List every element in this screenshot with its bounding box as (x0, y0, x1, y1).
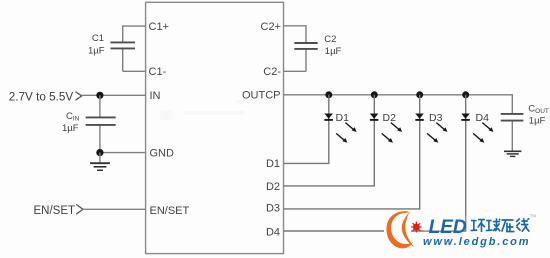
svg-text:1µF: 1µF (62, 123, 79, 134)
wire IN (82, 94, 146, 96)
svg-text:C1+: C1+ (149, 21, 170, 33)
svg-text:TM: TM (530, 214, 537, 219)
node OUTCP junction 3 (416, 91, 423, 98)
wire LED D1 branch (284, 95, 329, 164)
value label COUT (528, 104, 549, 116)
svg-text:1µF: 1µF (529, 116, 546, 127)
node OUTCP junction 2 (371, 91, 378, 98)
wire COUT to ground (511, 122, 513, 152)
pin label IN (150, 90, 161, 102)
svg-text:D2: D2 (383, 112, 397, 124)
LED D3 (415, 114, 447, 143)
value label D1 (336, 112, 350, 124)
node OUTCP junction 1 (325, 91, 332, 98)
value label CIN (66, 111, 80, 123)
pin label C1- (149, 66, 167, 78)
svg-text:D3: D3 (266, 203, 280, 215)
value label CIN 1uF (62, 123, 79, 134)
value label COUT 1uF (529, 116, 546, 127)
value label C2 (324, 34, 336, 45)
logo background (384, 211, 550, 256)
logo text LED (429, 217, 467, 238)
watermark (160, 100, 272, 120)
value label D2 (383, 112, 397, 124)
svg-text:D4: D4 (476, 112, 490, 124)
capacitor CIN (86, 117, 116, 125)
wire C2- stub (284, 49, 307, 71)
wire LED D2 branch (284, 95, 375, 186)
IC U1 (charge-pump LED driver body) (146, 2, 284, 253)
svg-text:LED: LED (429, 217, 467, 238)
wire C1+ stub (123, 26, 146, 42)
pin label D4 (266, 227, 280, 239)
svg-text:D1: D1 (266, 158, 280, 170)
input port 2.7V to 5.5V (9, 90, 82, 103)
wire C1- stub (123, 49, 146, 72)
svg-text:1µF: 1µF (88, 45, 105, 56)
logo trademark (530, 214, 537, 219)
value label C1 1uF (88, 45, 105, 56)
svg-text:EN/SET: EN/SET (34, 205, 76, 217)
svg-text:C2-: C2- (263, 66, 281, 78)
ground (COUT) (504, 151, 521, 156)
value label D3 (429, 112, 443, 124)
svg-text:C1-: C1- (149, 66, 167, 78)
pin label D1 (266, 158, 280, 170)
logo star (411, 222, 422, 233)
svg-text:D3: D3 (429, 112, 443, 124)
ground (input) (90, 153, 110, 171)
LED D2 (370, 114, 402, 143)
svg-text:www.ledgb.com: www.ledgb.com (423, 236, 530, 248)
value label C1 (92, 33, 104, 44)
svg-text:D2: D2 (266, 181, 280, 193)
value label C2 1uF (325, 46, 342, 57)
svg-text:IN: IN (150, 90, 161, 102)
svg-text:C2+: C2+ (261, 21, 282, 33)
svg-text:GND: GND (150, 148, 175, 160)
svg-text:1µF: 1µF (325, 46, 342, 57)
logo text huanqiuzaixian (471, 218, 530, 232)
node GND junction (96, 149, 103, 156)
LED D4 (461, 114, 493, 143)
svg-text:D1: D1 (336, 112, 350, 124)
capacitor C2 (294, 43, 317, 49)
wire LED D4 branch (284, 95, 466, 231)
node IN junction (96, 92, 103, 99)
wire CIN branch (99, 95, 101, 152)
svg-text:OUTCP: OUTCP (242, 90, 281, 102)
value label D4 (476, 112, 490, 124)
LED D1 (324, 114, 356, 143)
input port EN/SET (34, 204, 84, 216)
wire GND stub (100, 152, 146, 154)
capacitor COUT (501, 114, 524, 121)
svg-text:C2: C2 (324, 34, 336, 45)
svg-text:D4: D4 (266, 227, 280, 239)
logo url www.ledgb.com (423, 236, 530, 248)
pin label OUTCP (242, 90, 281, 102)
capacitor C1 (111, 42, 136, 48)
pin label EN/SET (150, 205, 190, 217)
wire EN/SET (83, 208, 146, 210)
svg-text:C1: C1 (92, 33, 104, 44)
wire LED D3 branch (284, 95, 420, 209)
pin label C1+ (149, 21, 170, 33)
logo swoosh (386, 211, 414, 248)
wire OUTCP rail (284, 95, 513, 113)
svg-text:EN/SET: EN/SET (150, 205, 190, 217)
pin label C2- (263, 66, 281, 78)
pin label C2+ (261, 21, 282, 33)
svg-text:2.7V to 5.5V: 2.7V to 5.5V (9, 90, 74, 103)
wire C2+ stub (284, 26, 307, 42)
pin label GND (150, 148, 175, 160)
pin label D3 (266, 203, 280, 215)
node OUTCP junction 4 (462, 91, 469, 98)
pin label D2 (266, 181, 280, 193)
